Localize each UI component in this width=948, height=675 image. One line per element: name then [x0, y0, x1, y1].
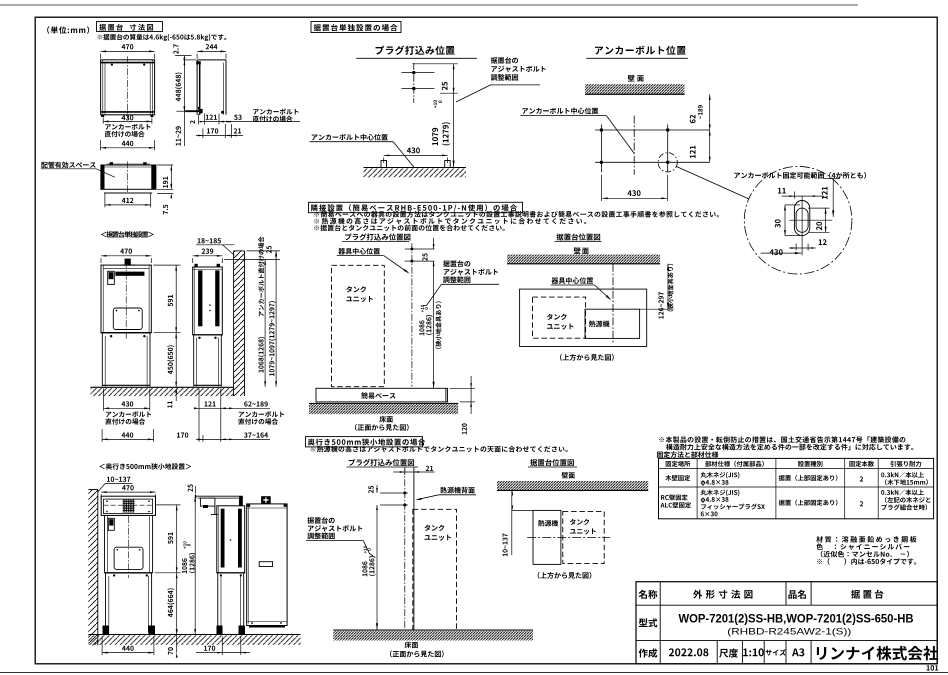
page top scan line	[0, 4, 858, 6]
label 配管有効スペース	[41, 162, 115, 178]
dim 1086(1286) G vertical	[362, 505, 378, 630]
boxed header 隣接設置	[309, 202, 523, 212]
block B front unit flue cap	[121, 259, 135, 266]
F top view centerline	[612, 264, 614, 345]
block D ground hatch	[364, 168, 467, 178]
dim 121 block D right	[690, 130, 711, 162]
block C tank plus cap	[261, 496, 271, 504]
front view A feet	[101, 115, 153, 117]
detail dim 121	[822, 179, 840, 217]
block D centerline	[633, 116, 635, 175]
detail dim 30	[775, 205, 800, 236]
detail dim 430 ref	[761, 249, 802, 255]
label 壁面 G	[562, 472, 575, 478]
dims 121 62~189 block B bottom	[194, 389, 270, 442]
page bottom scan line	[0, 672, 948, 674]
title プラグ打込み位置	[356, 46, 477, 59]
block C tank handle	[259, 562, 272, 567]
note 本製品の設置	[659, 436, 913, 450]
svg-text:WOP-7201(2)SS-HB,WOP-7201(2)SS: WOP-7201(2)SS-HB,WOP-7201(2)SS-650-HB	[679, 612, 914, 626]
block B unit centerline	[125, 261, 127, 340]
block C unit opening	[114, 547, 143, 569]
block C top bracket band	[101, 496, 155, 515]
dim 170 block C side	[196, 637, 250, 656]
dim 2.7 side view A	[173, 44, 196, 62]
dim 25 F	[422, 238, 434, 266]
block D anchor bolts on ground	[381, 161, 450, 168]
dim 2 side view A	[190, 107, 199, 125]
dim 11~29 side view A	[176, 107, 186, 146]
front view A centerline	[127, 56, 129, 118]
dim 25 block B	[224, 246, 280, 260]
detail slot	[794, 201, 809, 236]
note line 3 block F	[314, 225, 504, 231]
boxed header 奥行き500mm狭小地設置の場合	[306, 437, 426, 447]
label 上方から見た図 F	[560, 354, 614, 361]
dim 591 block C	[155, 505, 181, 573]
dim 70 block C	[168, 630, 178, 658]
dim 1079~1097 block B vertical	[269, 251, 277, 387]
material notes	[816, 536, 916, 565]
label anchor-bolt case side A	[253, 109, 299, 122]
block B side stand	[193, 335, 223, 387]
svg-text:(RHBD-R245AW2-1(S)): (RHBD-R245AW2-1(S))	[727, 626, 851, 637]
header 据置台単独設置	[101, 231, 154, 237]
block C front unit body	[105, 515, 153, 572]
block D bolt dots	[600, 128, 670, 164]
title プラグ打込み位置図 G	[347, 459, 418, 467]
block C stand front	[105, 573, 153, 633]
dim 591 block B	[154, 265, 181, 333]
dim 464(664) block C	[167, 573, 177, 635]
bottom view A centerline	[127, 161, 129, 193]
block C ground hatch	[88, 635, 300, 645]
F floor hatch	[309, 403, 458, 414]
title block row 2	[639, 612, 914, 637]
block D bolt rows	[595, 125, 710, 173]
dim 120 F	[450, 376, 476, 434]
title block row 3	[639, 646, 939, 661]
label anchor-bolt case A	[105, 124, 151, 137]
G tank text	[424, 525, 451, 541]
F top view outer box	[520, 289, 647, 346]
dim 10~137 G	[502, 490, 533, 556]
dim 1079(1279) block D vertical	[432, 64, 455, 167]
title プラグ打込み位置図 F	[342, 233, 410, 241]
dim 62~189 block D right	[690, 94, 711, 130]
G rear line and tank dashed box	[413, 468, 457, 631]
block B wall	[234, 251, 245, 396]
table row 2	[660, 489, 930, 516]
dim 191 bottom view A	[157, 165, 173, 189]
dim 440 block C	[102, 637, 154, 656]
dim 7.5 bottom view A	[157, 184, 173, 214]
F top view tank dashed	[533, 297, 586, 338]
label アンカーボルト中心位置 block D right	[521, 108, 635, 154]
label アンカーボルト固定可能範囲	[734, 172, 866, 179]
label 器具中心位置 F right	[551, 277, 612, 300]
dim 11 block B	[167, 388, 177, 408]
block C tank unit	[247, 504, 287, 626]
dim 18~185 block B	[196, 238, 234, 255]
note 据置台の質量	[97, 34, 226, 41]
G centerline	[527, 536, 610, 538]
dim 25 block C side	[188, 484, 197, 499]
title 据置台位置図 G	[528, 459, 577, 467]
detail dim 20	[808, 208, 830, 232]
dim 244 side view A	[197, 44, 226, 58]
label 固定方法と部材仕様	[657, 451, 718, 458]
dim 21 G	[393, 466, 434, 475]
dim 470 block B	[101, 249, 151, 263]
dim 1086 block C vertical	[182, 496, 198, 634]
F tank unit dashed box	[332, 265, 385, 386]
note block G	[311, 446, 568, 453]
F floor label	[355, 416, 409, 431]
bottom view A box	[101, 165, 156, 193]
G ground hatch	[333, 630, 533, 640]
dims 170 37~164 block B bottom	[177, 432, 270, 441]
label anchor-bolt case block B front	[105, 411, 151, 424]
title アンカーボルト位置	[586, 46, 688, 59]
label anchor-bolt case block B side	[238, 411, 284, 424]
side view A anchor bracket top	[196, 61, 201, 64]
dim 430 block D right	[601, 175, 667, 201]
block B unit louver slot	[115, 272, 144, 276]
dim 126~297 F right	[640, 264, 674, 319]
title block row 1	[639, 590, 884, 599]
dim 170 21 side view A	[196, 124, 243, 138]
side view A bracket bottom	[185, 109, 224, 114]
G wall hatch	[497, 481, 648, 490]
leader to detail	[677, 167, 750, 200]
block C side unit	[217, 496, 245, 573]
label (単位:mm)	[47, 26, 89, 33]
front view A box	[101, 60, 155, 115]
detail dim 11	[778, 188, 824, 199]
G tank dashed box	[563, 511, 604, 563]
G floor label	[390, 642, 444, 658]
block B side unit body	[193, 267, 223, 335]
dim 440 front view A	[101, 140, 155, 150]
dim 450(650) block B	[167, 333, 177, 388]
dim 1068(1268) block B vertical	[258, 236, 266, 386]
F tank unit text	[346, 286, 373, 302]
bottom view A bolts top	[107, 162, 150, 165]
title block grid	[636, 582, 937, 664]
title 据置台位置図 F	[555, 233, 602, 241]
detail centerlines	[789, 196, 832, 255]
plug position crosses	[402, 63, 435, 103]
label 熱源機背面 G	[415, 487, 476, 500]
detail circle アンカーボルト固定可能範囲	[744, 166, 852, 274]
dim 239 block B side	[193, 249, 223, 263]
block C side bracket	[198, 496, 243, 514]
dim 10~137 block C	[98, 477, 133, 492]
table row 1	[665, 472, 928, 486]
side view A box	[197, 60, 226, 115]
dim 448(648) side view A	[175, 56, 185, 146]
front view A bolt dots	[111, 64, 145, 66]
block B front unit body	[101, 265, 151, 333]
label 壁面 F	[574, 247, 589, 254]
F top view heat source box	[585, 309, 640, 338]
block C tank bottom marks	[249, 622, 285, 627]
boxed header 据置台単独設置の場合	[311, 22, 401, 33]
block B unit opening	[113, 308, 142, 330]
dim 25 block D	[412, 64, 457, 93]
label 器具中心位置 F	[337, 248, 410, 274]
label 調整範囲 F	[423, 260, 499, 305]
block C bracket grille	[123, 500, 135, 513]
block B unit pilot window	[108, 271, 115, 284]
label アンカーボルト中心位置 block D	[310, 134, 414, 167]
block C stand feet	[103, 626, 156, 635]
spec table grid	[659, 458, 934, 518]
label 壁面 block D	[628, 75, 644, 82]
label 据置台のアジャストボルト調整範囲 block D	[456, 57, 546, 102]
dim 430 block B	[104, 389, 150, 411]
dim 430 block D	[384, 147, 448, 163]
block B side louvers	[198, 270, 219, 326]
F centerline and ticks	[405, 243, 435, 387]
boxed title 据置台 寸法図	[97, 22, 163, 32]
dim 1086(1286) F vertical	[419, 261, 441, 388]
dim 440 block B	[102, 429, 153, 442]
label 調整範囲 G	[306, 517, 373, 556]
block D wall hatch	[585, 84, 685, 94]
F wall hatch	[507, 255, 660, 264]
G heat source box	[533, 510, 561, 564]
dim 121 53 side view A	[200, 114, 300, 125]
table header row	[666, 461, 921, 467]
block B side unit top cap	[195, 264, 221, 267]
block C unit centerline	[128, 516, 130, 578]
dim 430 front view A	[103, 115, 152, 123]
header 奥行き500mm狭小地設置	[99, 463, 191, 469]
block C pilot window	[108, 518, 114, 530]
block B ground hatch	[91, 387, 234, 396]
dim 470 block C	[101, 485, 155, 498]
sheet number 101	[927, 665, 939, 670]
label 上方から見た図 G	[538, 572, 592, 579]
detail dim 12	[789, 239, 827, 250]
block C side stand	[217, 573, 246, 634]
block B stand	[101, 333, 151, 387]
dim 25 G	[368, 485, 378, 510]
detail circle on bolt	[658, 153, 677, 172]
block C wall	[88, 490, 97, 646]
note line 1 block F	[314, 211, 719, 217]
G centerline and ticks	[380, 468, 408, 631]
dim 470 front view A	[101, 44, 155, 58]
F base 簡易ベース	[316, 388, 448, 402]
dim 412 bottom view A	[105, 193, 151, 208]
note line 2 block F	[314, 218, 586, 225]
